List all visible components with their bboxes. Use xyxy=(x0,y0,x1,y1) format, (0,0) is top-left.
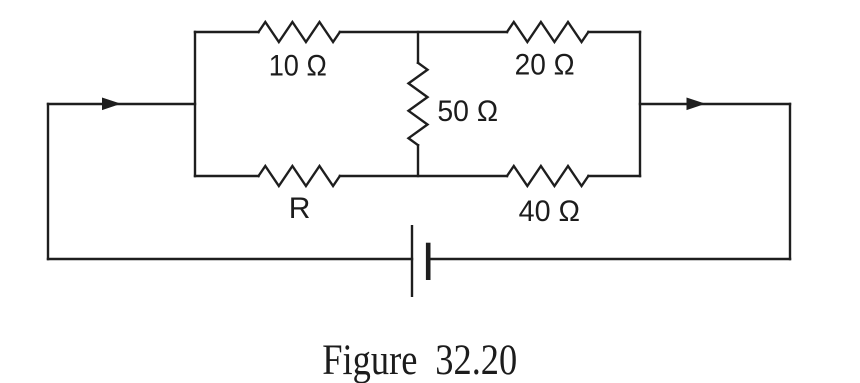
wire bridge left vertical xyxy=(194,32,196,176)
wire right feed horizontal (bridge to outer right) xyxy=(640,103,790,105)
wire battery to bottom-right xyxy=(430,258,790,260)
wire middle branch bottom stub xyxy=(417,145,419,176)
wire bottom-left horizontal (bridge bottom-left corner to R) xyxy=(195,175,259,177)
svg-text:20 Ω: 20 Ω xyxy=(515,49,575,82)
wire outer right vertical xyxy=(789,104,791,259)
wire top-right horizontal (20 ohm to bridge top-right corner) xyxy=(588,31,640,33)
wire bottom-middle horizontal (R to 40 ohm through node) xyxy=(340,175,507,177)
svg-text:40 Ω: 40 Ω xyxy=(519,195,580,228)
wire left feed horizontal (outer left to bridge) xyxy=(48,103,195,105)
wire bridge right vertical xyxy=(639,32,641,176)
svg-text:R: R xyxy=(289,192,311,225)
resistor R zigzag xyxy=(259,166,340,186)
current arrow left xyxy=(102,98,121,111)
svg-text:Figure: Figure xyxy=(322,337,417,383)
resistor 40 ohm zigzag xyxy=(507,166,588,186)
svg-text:32.20: 32.20 xyxy=(435,337,517,383)
svg-text:50 Ω: 50 Ω xyxy=(437,95,498,128)
svg-text:10 Ω: 10 Ω xyxy=(269,50,327,83)
battery long plate (positive) xyxy=(411,225,413,297)
current arrow right xyxy=(687,98,706,111)
wire top-middle horizontal (10 ohm to 20 ohm through node) xyxy=(340,31,507,33)
wire bottom-right horizontal (40 ohm to bridge bottom-right corner) xyxy=(588,175,640,177)
resistor 20 ohm zigzag xyxy=(507,22,588,42)
wire bottom-left to battery xyxy=(48,258,412,260)
wire middle branch top stub xyxy=(417,32,419,63)
wire top-left horizontal (bridge top-left corner to 10 ohm) xyxy=(195,31,259,33)
resistor 50 ohm zigzag (vertical) xyxy=(409,63,428,145)
battery short thick plate (negative) xyxy=(426,243,431,280)
resistor 10 ohm zigzag xyxy=(259,22,340,42)
wire outer left vertical xyxy=(47,104,49,259)
